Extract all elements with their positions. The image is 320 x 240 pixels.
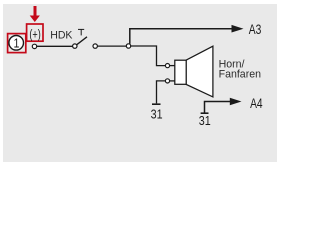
arrowhead to A4 — [230, 98, 242, 106]
wire from switch to junction — [97, 45, 126, 47]
horn lower terminal — [165, 79, 169, 83]
switch HDK (pushbutton contact) — [73, 29, 98, 48]
svg-text:(+): (+) — [29, 28, 41, 42]
svg-text:A4: A4 — [250, 95, 263, 111]
red arrow marker — [30, 6, 40, 22]
wire upper terminal to horn — [170, 65, 175, 67]
wire from junction up toward A3 — [130, 29, 232, 44]
horn/fanfare sounder — [175, 46, 213, 97]
label Horn/Fanfaren — [219, 59, 262, 81]
wire from junction to horn upper terminal — [131, 46, 166, 66]
wire from ground 31 right to A4 — [205, 102, 231, 114]
wire from (+) terminal to switch — [37, 45, 73, 47]
svg-text:1: 1 — [13, 37, 19, 51]
junction node — [126, 44, 130, 48]
ground 31 (right) — [201, 112, 209, 114]
arrowhead to A3 — [232, 25, 244, 33]
schematic background panel — [3, 4, 277, 162]
svg-text:31: 31 — [151, 106, 163, 121]
wire from lower terminal to ground 31 left — [157, 81, 166, 104]
svg-text:A3: A3 — [249, 22, 262, 38]
red highlight box around node 1 — [8, 34, 26, 53]
wire lower terminal to horn — [170, 80, 175, 82]
terminal (+) circle — [32, 44, 36, 48]
svg-text:Fanfaren: Fanfaren — [219, 68, 262, 80]
svg-text:HDK: HDK — [50, 29, 73, 41]
node 1 (circled contact designation) — [9, 36, 24, 51]
horn upper terminal — [165, 64, 169, 68]
red highlight box around (+) label — [27, 24, 43, 41]
ground 31 (left) — [152, 103, 161, 105]
svg-text:31: 31 — [199, 113, 211, 128]
